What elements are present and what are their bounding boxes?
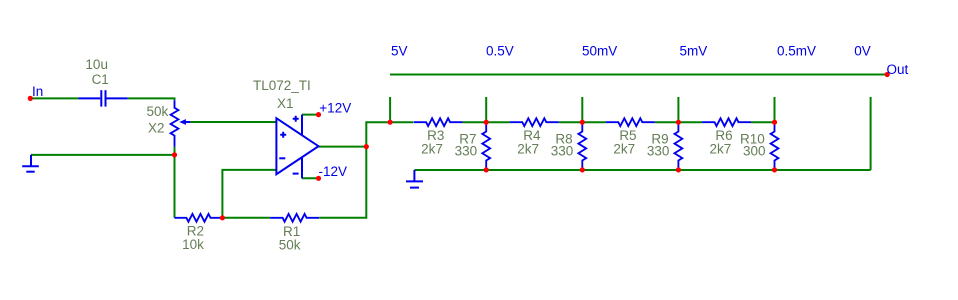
svg-text:2k7: 2k7 [421, 142, 443, 157]
svg-text:-12V: -12V [319, 164, 348, 179]
svg-text:330: 330 [647, 144, 670, 159]
svg-text:50mV: 50mV [582, 44, 617, 59]
svg-text:2k7: 2k7 [517, 142, 539, 157]
svg-text:C1: C1 [92, 72, 109, 87]
svg-text:5V: 5V [391, 44, 408, 59]
svg-text:0V: 0V [854, 44, 871, 59]
svg-text:300: 300 [743, 144, 766, 159]
svg-text:330: 330 [551, 144, 574, 159]
svg-text:10k: 10k [182, 237, 204, 252]
svg-text:50k: 50k [279, 238, 301, 253]
svg-text:2k7: 2k7 [709, 142, 731, 157]
svg-text:2k7: 2k7 [613, 142, 635, 157]
svg-text:5mV: 5mV [680, 44, 708, 59]
svg-text:+12V: +12V [319, 100, 351, 115]
svg-text:TL072_TI: TL072_TI [253, 78, 311, 93]
svg-text:X2: X2 [148, 120, 165, 135]
svg-text:Out: Out [887, 62, 909, 77]
svg-text:0.5V: 0.5V [486, 44, 514, 59]
svg-text:50k: 50k [147, 104, 169, 119]
svg-text:330: 330 [455, 144, 478, 159]
svg-text:X1: X1 [277, 96, 294, 111]
svg-text:0.5mV: 0.5mV [777, 44, 816, 59]
svg-text:In: In [32, 84, 43, 99]
svg-text:10u: 10u [85, 57, 108, 72]
